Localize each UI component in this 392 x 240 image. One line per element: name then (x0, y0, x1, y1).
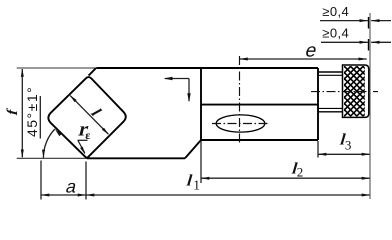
svg-text:3: 3 (345, 137, 352, 152)
svg-text:45°±1°: 45°±1° (24, 86, 40, 137)
svg-text:≥0,4: ≥0,4 (322, 4, 349, 19)
svg-text:≥0,4: ≥0,4 (322, 26, 349, 41)
svg-text:1: 1 (193, 178, 200, 193)
svg-text:2: 2 (297, 165, 304, 180)
